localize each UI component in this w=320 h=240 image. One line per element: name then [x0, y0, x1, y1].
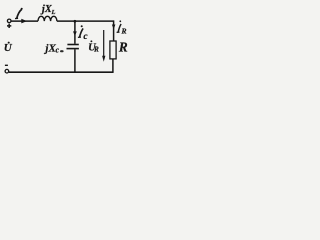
junction dot at capacitor branch: [74, 20, 77, 23]
wire: right branch down to resistor: [113, 20, 115, 40]
label I (source current): [15, 9, 22, 18]
label IC: [78, 28, 83, 37]
plus sign: [7, 24, 11, 28]
wire: capacitor to bottom wire: [74, 49, 76, 72]
wire: bottom return: [9, 71, 114, 73]
current arrowhead IC on capacitor branch: [73, 31, 77, 36]
wire: top-left terminal to inductor: [11, 20, 38, 22]
svg-text:jX: jX: [43, 43, 56, 55]
voltage arrow UR shaft: [103, 30, 105, 58]
voltage arrowhead UR: [102, 56, 105, 62]
dot of phasor IR: [119, 20, 121, 22]
wire: inductor to top-right corner: [57, 20, 114, 22]
dot of phasor IC: [81, 25, 83, 27]
resistor R: [110, 41, 116, 59]
svg-text:R: R: [121, 27, 127, 36]
dot of phasor I (top-left): [21, 8, 23, 10]
label IR: [117, 24, 122, 32]
svg-text:R: R: [93, 46, 99, 54]
dot of phasor UR: [90, 40, 92, 42]
svg-text:U: U: [4, 42, 13, 54]
minus sign: [5, 64, 8, 66]
terminal + (top-left): [7, 19, 11, 23]
svg-text:L: L: [51, 9, 56, 16]
capacitor jXC top plate: [67, 44, 78, 46]
current arrowhead I on top wire: [21, 19, 27, 24]
dot of phasor U (source): [8, 42, 10, 44]
ink speck right of jXC label: [60, 50, 64, 52]
svg-text:c: c: [56, 45, 60, 54]
current arrowhead IR on right branch: [112, 25, 116, 30]
wire: capacitor branch upper: [74, 21, 76, 44]
terminal - (bottom-left): [5, 69, 9, 73]
wire: resistor to bottom-right corner: [112, 59, 114, 73]
svg-text:R: R: [118, 40, 128, 55]
capacitor jXC bottom plate: [67, 48, 79, 50]
inductor jXL: [38, 16, 57, 21]
